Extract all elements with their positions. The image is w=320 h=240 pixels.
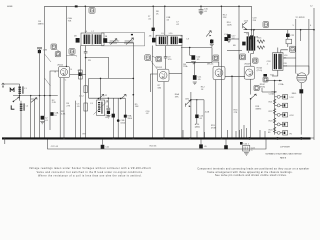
wire osc section line	[89, 97, 126, 99]
coil L2	[20, 101, 29, 113]
transistor Q2 IF amp	[156, 67, 169, 81]
wire Q2 emitter right	[169, 73, 182, 75]
transformer T3 IF (L9 L10)	[156, 33, 182, 46]
wire T1 to mixer line	[104, 42, 133, 44]
svg-text:Valve and connector but switch: Valve and connector but switched in the …	[37, 171, 144, 174]
svg-text:COPYRIGHT: COPYRIGHT	[280, 147, 290, 149]
wire B rail right	[313, 8, 315, 140]
node bus6	[132, 137, 134, 139]
svg-text:4.5V: 4.5V	[289, 115, 294, 117]
resistor R4B	[84, 103, 88, 111]
node bus5	[112, 137, 114, 139]
svg-text:A36B: A36B	[7, 5, 13, 8]
node m1b	[108, 98, 109, 99]
alignment box 14	[263, 77, 268, 82]
note paragraph right	[197, 168, 309, 178]
alignment box 12	[240, 54, 246, 60]
svg-text:NEG: NEG	[292, 93, 297, 95]
wire avc left line	[13, 95, 58, 97]
svg-text:27K: 27K	[66, 105, 70, 107]
node r3	[274, 80, 276, 82]
capacitor C19	[242, 42, 245, 46]
node bus9	[220, 137, 222, 139]
tuning gang box	[102, 33, 145, 46]
alignment box 15	[254, 86, 259, 91]
resistor zig 1	[273, 99, 275, 104]
capacitor C22	[286, 34, 295, 37]
node a4	[49, 95, 50, 96]
capacitor C5	[78, 72, 81, 76]
wire left rail	[44, 6, 46, 138]
svg-text:39K: 39K	[175, 96, 179, 98]
alignment box 7	[51, 44, 57, 49]
wire T3 out line	[181, 47, 212, 49]
svg-text:1MEG: 1MEG	[255, 108, 261, 110]
svg-text:Component terminals and connec: Component terminals and connecting leads…	[197, 168, 309, 171]
capacitor C23	[299, 89, 303, 93]
wire speaker lead 2	[308, 19, 310, 74]
diode CR2	[206, 31, 211, 37]
switch arm S1a	[14, 97, 20, 101]
wire to T1 primary	[84, 6, 86, 33]
alignment box 9	[290, 46, 296, 52]
wire avc diag	[45, 78, 51, 86]
node rail2	[313, 29, 315, 31]
svg-text:C21A: C21A	[278, 83, 284, 86]
wire T1 sec lead	[84, 46, 88, 58]
wire branch near bus	[183, 129, 265, 138]
wire sec lead down	[85, 57, 87, 137]
wire top rail right corner	[251, 6, 253, 35]
alignment box 13	[253, 58, 258, 63]
svg-text:10K: 10K	[135, 106, 139, 108]
svg-text:frame arrangement with those a: frame arrangement with those appearing a…	[207, 171, 293, 174]
wire drv link	[227, 50, 242, 52]
switch M contact	[10, 88, 14, 92]
capacitor C24	[243, 145, 256, 155]
wire Q2 base left	[150, 74, 157, 92]
resistor zig 3	[273, 118, 275, 123]
resistor zig 2	[273, 108, 275, 113]
wire to Q1 collector	[65, 6, 67, 66]
svg-text:1.5V: 1.5V	[289, 97, 294, 99]
node Q1 top	[66, 66, 67, 67]
node a1	[19, 95, 20, 96]
wire C10 branch	[189, 48, 191, 56]
node r1	[250, 98, 252, 100]
wire Q4 emitter right	[225, 75, 245, 77]
resistor R12A zigzag	[257, 46, 265, 49]
node j6	[85, 6, 87, 8]
svg-text:C22 .05: C22 .05	[51, 146, 59, 148]
resistor R14	[220, 6, 222, 138]
node bus7	[163, 137, 165, 139]
wire branch 59	[59, 78, 61, 138]
capacitor C11	[186, 63, 212, 85]
wire det branch 4	[227, 38, 239, 40]
node bus1	[248, 137, 251, 140]
node r4	[279, 80, 281, 82]
svg-text:22K: 22K	[223, 17, 227, 19]
plug P4	[275, 122, 288, 126]
variable capacitor C1B	[124, 38, 134, 45]
wire to Q3	[238, 6, 240, 138]
capacitor C6	[76, 38, 80, 43]
resistor R5A	[124, 98, 133, 138]
transistor Q5 output	[244, 64, 254, 80]
coil L1	[18, 84, 27, 96]
capacitor C8 on line	[152, 28, 155, 31]
wire L1 to bus	[20, 96, 21, 138]
resistor zig 4	[273, 127, 275, 132]
svg-text:(25.0): (25.0)	[257, 70, 263, 72]
switch L contact	[11, 105, 14, 109]
capacitor C9B	[117, 98, 126, 138]
wire box links	[45, 49, 77, 62]
switch S2	[251, 94, 256, 99]
plug P3	[275, 113, 288, 117]
node a2	[30, 95, 31, 96]
node j4	[221, 6, 223, 8]
wire speaker down	[300, 83, 302, 89]
wire to T2 top	[164, 6, 166, 35]
capacitor C8A	[105, 98, 115, 138]
battery divider line	[274, 81, 276, 135]
wire branch r17	[240, 125, 247, 138]
alignment box 6	[213, 55, 219, 61]
capacitor C12	[210, 39, 214, 47]
transformer T1 IF (L6 L7)	[81, 31, 104, 46]
capacitor C2	[40, 116, 44, 124]
node b2	[133, 78, 135, 80]
svg-text:2N112: 2N112	[57, 64, 64, 66]
svg-text:470K: 470K	[211, 128, 216, 130]
node b1	[85, 57, 87, 59]
capacitor C24a	[199, 139, 207, 148]
plug P5	[275, 131, 288, 135]
resistor R4A	[84, 86, 88, 93]
node m3	[133, 94, 135, 96]
variable capacitor C1A	[109, 39, 117, 45]
svg-text:C20A: C20A	[269, 93, 275, 96]
node bus3	[300, 137, 303, 140]
svg-text:2N109: 2N109	[244, 64, 251, 66]
wire Q2 collector down	[163, 82, 165, 138]
capacitor C4C on rail	[75, 5, 78, 7]
node j10	[251, 29, 253, 31]
antenna terminal	[2, 83, 20, 88]
capacitor C18	[250, 35, 253, 39]
node a3	[44, 95, 45, 96]
wire speaker lead 1	[295, 19, 297, 74]
svg-text:2N112: 2N112	[156, 67, 163, 69]
wire audio feed	[262, 88, 275, 92]
wire detector link	[191, 99, 204, 101]
wire Q4 collector down	[215, 80, 217, 138]
wire branch 152	[151, 46, 153, 138]
capacitor C10	[190, 55, 201, 63]
transistor Q3	[243, 20, 249, 30]
wire C23 down	[300, 93, 302, 134]
capacitor C24b	[224, 139, 228, 149]
wire Q5 return	[249, 99, 251, 138]
capacitor C9a	[152, 38, 156, 43]
transformer T2 driver	[244, 30, 255, 54]
plug P2	[275, 103, 288, 107]
capacitor C2A	[50, 112, 58, 117]
node bus8	[189, 137, 191, 139]
node s1	[13, 101, 15, 103]
svg-text:R20 56: R20 56	[150, 145, 158, 147]
alignment box 3	[89, 8, 95, 14]
capacitor C9 plates	[164, 46, 172, 69]
wire T2 primary bottom	[272, 70, 278, 76]
svg-text:DR-5C: DR-5C	[207, 63, 214, 65]
svg-text:6.8K: 6.8K	[61, 113, 66, 115]
svg-text:See valve pin numbers and show: See valve pin numbers and shown visible …	[215, 174, 287, 177]
wire T1 shield lead	[79, 46, 81, 138]
trimmer blob	[131, 34, 133, 35]
wire below-bus return	[48, 139, 267, 149]
svg-text:(A30): (A30)	[195, 126, 200, 129]
switch arm S1d	[121, 94, 127, 99]
svg-text:75K: 75K	[68, 20, 72, 22]
node det1	[190, 99, 192, 101]
transistor Q4 detector	[207, 63, 225, 79]
capacitor C7	[103, 38, 107, 43]
node j3	[200, 6, 202, 8]
diode CR1	[185, 92, 191, 138]
resistor R16	[231, 76, 233, 138]
transformer T2 output	[273, 53, 289, 71]
node j1	[152, 6, 154, 8]
capacitor C14	[224, 34, 229, 41]
node m1	[98, 98, 100, 100]
svg-text:(R18): (R18)	[260, 86, 266, 88]
capacitor C15	[199, 6, 209, 14]
node j5	[238, 6, 240, 8]
resistor R6A	[181, 46, 183, 138]
capacitor C8	[106, 98, 110, 118]
capacitor C13	[195, 100, 204, 124]
node j2	[164, 6, 166, 8]
wire osc link	[86, 57, 134, 98]
switch arm S1b	[31, 98, 37, 103]
wire det branch 2	[203, 100, 205, 138]
wire Q1 collector down	[63, 78, 65, 138]
capacitor C24x	[240, 142, 243, 145]
node bus2	[276, 137, 279, 140]
svg-text:Voltage readings taken under S: Voltage readings taken under Socket Volt…	[29, 167, 151, 170]
wire Q5 collector top	[250, 54, 252, 67]
alignment box 5	[156, 56, 162, 61]
wire branch 39	[39, 49, 41, 138]
svg-text:1MEG: 1MEG	[38, 23, 44, 25]
oscillator coil L3 box	[90, 100, 108, 116]
wire audio hline	[266, 80, 282, 82]
resistor R12 zigzag	[257, 38, 265, 44]
svg-text:PAGE B: PAGE B	[280, 157, 287, 160]
node d1	[231, 76, 233, 78]
switch arm S1c	[99, 94, 105, 99]
wire Q5 emitter down	[249, 79, 251, 94]
capacitor C17	[227, 34, 236, 42]
wire AVC line right	[244, 29, 315, 31]
wire B+ top rail	[45, 5, 252, 7]
label copyright	[265, 147, 302, 160]
wire bus right link	[311, 137, 314, 139]
resistor R19 box	[286, 39, 292, 44]
wire Q1 emitter	[70, 74, 86, 76]
transistor Q1 converter	[55, 64, 73, 81]
alignment box 11	[69, 49, 75, 55]
svg-text:TRA: TRA	[183, 65, 188, 68]
wire T2 primary top	[278, 48, 288, 53]
wire Q1 base	[50, 71, 59, 130]
node r2	[274, 91, 276, 93]
wire mixer drop	[132, 43, 134, 138]
node det2	[196, 99, 197, 100]
note paragraph left	[29, 167, 151, 177]
svg-text:SCHEMATIC BY AUTOMATIC RADIO S: SCHEMATIC BY AUTOMATIC RADIO SERVICE	[265, 152, 302, 155]
capacitor C19A	[263, 74, 267, 77]
node bus4	[63, 137, 65, 139]
alignment box 4	[145, 55, 151, 61]
alignment box 8	[263, 22, 269, 28]
node a5	[39, 95, 40, 96]
svg-text:C2B: C2B	[43, 49, 48, 51]
plug P1	[275, 95, 288, 99]
wire osc feed	[100, 78, 102, 100]
svg-text:4-5B: 4-5B	[205, 111, 210, 113]
node j7	[253, 29, 255, 31]
node j8	[300, 29, 302, 31]
svg-text:2.2K: 2.2K	[52, 102, 57, 104]
svg-text:Where the resistance of a coil: Where the resistance of a coil is less t…	[38, 175, 142, 178]
wire C18 down	[251, 39, 253, 47]
capacitor C9b	[179, 38, 183, 43]
wire to T2 cap	[152, 6, 154, 38]
capacitor C2B	[37, 48, 48, 54]
speaker SP1	[297, 73, 309, 83]
ground bus	[2, 137, 311, 139]
alignment box 10	[55, 52, 60, 57]
node b3	[100, 78, 102, 80]
wire branch 75	[74, 101, 76, 138]
wire avc drop	[300, 30, 302, 41]
wire branch 34	[31, 99, 35, 138]
wire box link diag	[151, 56, 158, 70]
capacitor C3a	[101, 139, 110, 149]
wire sw2 drop	[30, 96, 32, 138]
wire det drop	[212, 48, 219, 67]
resistor R2A	[79, 70, 83, 79]
wire C22 stub	[287, 30, 289, 47]
wire T2 secondary to speaker	[283, 58, 309, 74]
svg-text:T1A: T1A	[270, 74, 274, 77]
node d0	[194, 62, 195, 63]
svg-text:100K: 100K	[227, 24, 232, 26]
node j9	[189, 47, 191, 49]
svg-text:TO SPKR: TO SPKR	[295, 17, 305, 19]
wire bus end tick	[4, 138, 6, 144]
node m2	[120, 98, 122, 100]
svg-text:27K: 27K	[234, 112, 238, 114]
